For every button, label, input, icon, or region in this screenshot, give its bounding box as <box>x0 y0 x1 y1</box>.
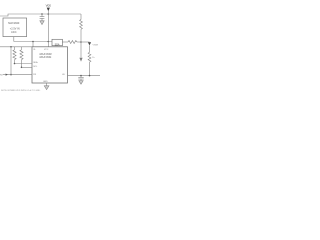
capacitor C2 <box>78 76 83 81</box>
wire top rail VDD <box>0 14 81 16</box>
node junction VDD <box>48 13 50 15</box>
box system (top-left) <box>3 18 27 37</box>
box SIM (small middle) <box>52 39 62 45</box>
svg-text:RX: RX <box>0 75 4 77</box>
svg-text:VL: VL <box>33 49 36 51</box>
wire to R3 <box>62 41 68 43</box>
svg-text:VCC: VCC <box>44 49 49 51</box>
svg-text:RX: RX <box>33 74 37 76</box>
wire R2 down <box>89 62 91 76</box>
svg-text:ASIC: ASIC <box>11 31 17 34</box>
svg-text:MAX1840: MAX1840 <box>8 22 20 25</box>
node C2 top <box>80 75 82 77</box>
resistor R3 horizontal <box>68 41 77 44</box>
capacitor C1 <box>40 14 45 21</box>
wire pullup rail <box>0 46 32 48</box>
wire D1 to R2 <box>89 45 91 52</box>
diode D1 arrow <box>88 42 91 45</box>
wire VL stub <box>32 42 34 47</box>
wire branch to D1 <box>81 41 90 43</box>
wire SCL <box>22 66 33 68</box>
resistor R4 pullup <box>13 47 16 64</box>
wire RX <box>3 74 32 76</box>
svg-text:VSIM: VSIM <box>93 45 99 47</box>
svg-text:MAX1841: MAX1841 <box>40 55 53 59</box>
box IC MAX1840/MAX1841 <box>32 47 68 83</box>
node R5 bottom <box>21 67 23 69</box>
svg-text:1k: 1k <box>92 57 95 59</box>
node VL <box>32 41 34 43</box>
wire right rail lower <box>80 29 82 57</box>
svg-text:NOTE: BYPASS VDD WITH 0.1uF TO: NOTE: BYPASS VDD WITH 0.1uF TO GND. <box>1 89 41 92</box>
wire left drop <box>10 47 12 75</box>
node right rail <box>80 41 82 43</box>
node pullup rail <box>10 46 12 48</box>
resistor R1 vertical <box>80 20 83 30</box>
svg-text:SDA: SDA <box>33 61 38 64</box>
wire mid VL/VCC <box>14 41 52 43</box>
svg-text:GND: GND <box>43 81 48 83</box>
wire VCC stub <box>47 14 49 47</box>
svg-text:LB: LB <box>62 74 65 76</box>
svg-text:SDA: SDA <box>55 43 60 46</box>
svg-text:SCL: SCL <box>33 66 38 68</box>
wire system box stub down <box>13 37 15 42</box>
svg-text:VDD: VDD <box>46 3 52 7</box>
node junction C1 top <box>41 13 43 15</box>
resistor R2 vertical <box>88 52 91 62</box>
wire right rail upper <box>80 14 82 20</box>
wire VDD arrow stub <box>47 11 49 14</box>
wire GND stub <box>46 83 48 86</box>
arrow RX direction <box>6 74 8 76</box>
arrow open down <box>79 58 82 62</box>
wire SDA <box>15 63 33 65</box>
ground under C2 <box>79 81 83 85</box>
svg-text:+2.5V IN: +2.5V IN <box>10 28 20 31</box>
node RX <box>10 74 12 76</box>
ground IC <box>44 86 49 90</box>
node R2 bottom <box>89 75 91 77</box>
wire LB out <box>68 75 101 77</box>
node VCC <box>48 41 50 43</box>
wire R3 to node <box>77 41 81 43</box>
power VDD arrow <box>47 8 50 12</box>
node R4 bottom <box>14 63 16 65</box>
ground under C1 <box>40 21 44 25</box>
resistor R5 pullup <box>20 47 23 68</box>
